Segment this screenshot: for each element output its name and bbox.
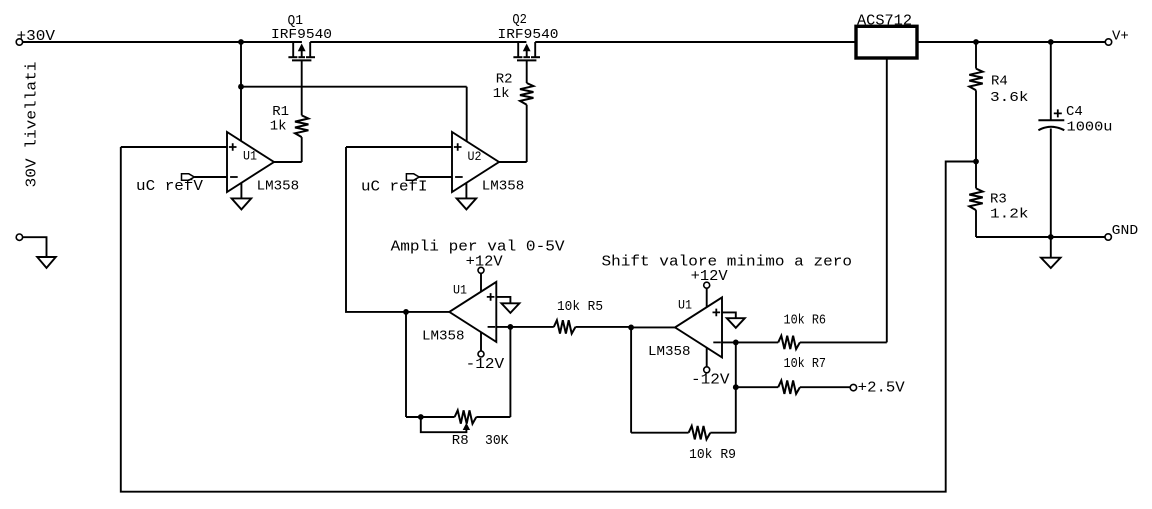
label 10k R7 [784, 356, 827, 372]
label Q2 [512, 12, 527, 28]
label -12V (Shift) [691, 373, 730, 389]
terminal GND [1105, 234, 1111, 240]
terminal +30V [16, 39, 22, 45]
svg-text:-12V: -12V [691, 373, 730, 389]
wire refI loop [346, 147, 449, 312]
svg-text:+30V: +30V [17, 29, 56, 45]
label R4 [991, 73, 1008, 89]
label 1k (R1) [270, 119, 287, 135]
resistor R5 10k [554, 320, 631, 333]
op-amp U1 LM358 (Ampli, mirrored) [449, 282, 496, 342]
label R2 [496, 72, 513, 88]
resistor R3 1.2k [969, 162, 982, 238]
svg-text:IRF9540: IRF9540 [271, 27, 332, 43]
svg-text:LM358: LM358 [422, 329, 465, 345]
label +30V [17, 29, 56, 45]
label U2 [468, 149, 482, 164]
wire rail Q1-Q2 segment [310, 41, 526, 43]
svg-text:+12V: +12V [691, 269, 728, 285]
wire Ampli - output row [496, 326, 554, 328]
label ACS712 [857, 12, 912, 29]
svg-text:1.2k: 1.2k [990, 206, 1029, 222]
wire U2 + input [346, 146, 452, 148]
svg-text:LM358: LM358 [482, 179, 525, 195]
label -12V (Ampli) [466, 357, 505, 373]
resistor R1 1k [295, 60, 308, 162]
node junction Shift input [628, 325, 634, 331]
terminal V+ [1105, 39, 1111, 45]
wire feedback V loop (left/bottom) [121, 147, 976, 492]
wire Shift + input to gnd [722, 312, 736, 318]
svg-text:U2: U2 [468, 149, 482, 164]
label 10k R9 [689, 447, 736, 463]
resistor R2 1k [520, 60, 533, 162]
wire +12V stub (Ampli) [480, 273, 482, 292]
node junction Ampli input [403, 309, 409, 315]
node flag uC refV [182, 174, 195, 180]
svg-text:R1: R1 [272, 104, 289, 120]
label U1 (Shift) [678, 298, 692, 313]
label +2.5V [858, 381, 905, 397]
label uC refV [136, 179, 203, 195]
op-amp U1 LM358 (Shift, mirrored) [675, 297, 722, 357]
svg-text:LM358: LM358 [648, 344, 691, 360]
wire ACS712 output column [886, 58, 888, 342]
terminal -12V (Ampli) [478, 351, 484, 357]
svg-text:30V livellati: 30V livellati [25, 61, 41, 187]
label U1 (first op-amp) [243, 149, 257, 164]
wire +30V rail (left segment) [23, 41, 302, 43]
wire +12V stub (Shift) [706, 288, 708, 307]
svg-text:R3: R3 [990, 192, 1007, 208]
terminal +2.5V [850, 384, 856, 390]
wire R5 to Shift input [631, 326, 675, 328]
svg-text:10k R5: 10k R5 [557, 299, 603, 315]
label IRF9540 (Q1) [271, 27, 332, 43]
wire gnd reference [23, 237, 47, 257]
node junction C4 bottom [1048, 234, 1054, 240]
svg-text:1k: 1k [493, 86, 510, 102]
resistor R7 10k [736, 381, 850, 394]
wire Shift - to R7 column [735, 342, 737, 432]
svg-text:LM358: LM358 [257, 178, 300, 194]
terminal +12V (Shift) [704, 282, 710, 288]
terminal +12V (Ampli) [478, 267, 484, 273]
wire +30V column down [240, 42, 242, 87]
wire U2 output [499, 161, 527, 163]
ground left flag [37, 257, 56, 268]
ground Ampli + input flag [501, 303, 519, 313]
wire U1 - input [194, 176, 227, 178]
label +12V (Shift) [691, 269, 728, 285]
svg-text:30K: 30K [485, 433, 509, 449]
resistor R9 10k [631, 327, 736, 439]
svg-text:10k R6: 10k R6 [784, 313, 827, 329]
ground right flag [1041, 237, 1061, 268]
label R3 [990, 192, 1007, 208]
svg-text:10k R9: 10k R9 [689, 447, 736, 463]
label 30K [485, 433, 509, 449]
label 1.2k [990, 206, 1029, 222]
component ACS712 box [856, 26, 917, 58]
label 1000u [1067, 120, 1113, 136]
label Ampli per val 0-5V [391, 239, 565, 256]
resistor R4 3.6k [969, 42, 982, 162]
wire -12V stub (Ampli) [480, 332, 482, 351]
node junction R4/R3 divider [973, 159, 979, 165]
op-amp U2 LM358 [452, 132, 499, 192]
label Shift valore minimo a zero [602, 254, 853, 271]
svg-text:U1: U1 [678, 298, 692, 313]
label 3.6k [990, 90, 1029, 106]
label 30V livellati (rotated) [25, 61, 41, 187]
node junction R8 wiper tap [418, 414, 424, 420]
svg-text:R8: R8 [452, 433, 469, 449]
wire U2 - input [419, 176, 452, 178]
node flag uC refI [406, 174, 419, 180]
label V+ [1112, 29, 1129, 45]
svg-text:U1: U1 [243, 149, 257, 164]
svg-text:-12V: -12V [466, 357, 505, 373]
label +12V (Ampli) [466, 255, 503, 271]
label C4 polarity + [1054, 109, 1062, 117]
label 10k R6 [784, 313, 827, 329]
label IRF9540 (Q2) [498, 27, 559, 43]
node junction opamp supply rail [238, 84, 244, 90]
resistor R6 10k [778, 336, 887, 349]
svg-text:10k R7: 10k R7 [784, 356, 827, 372]
wire rail Q2-ACS712 segment [535, 41, 856, 43]
node junction R4 top [973, 39, 979, 45]
wire Shift - output row [722, 341, 778, 343]
terminal -12V (Shift) [704, 367, 710, 373]
label R1 [272, 104, 289, 120]
transistor Q2 IRF9540 [513, 42, 540, 60]
node junction Ampli - node [508, 324, 514, 330]
label LM358 (U1) [257, 178, 300, 194]
terminal gnd reference left [16, 234, 22, 240]
label LM358 (Shift) [648, 344, 691, 360]
wire opamp supply rail [241, 86, 467, 88]
svg-text:V+: V+ [1112, 29, 1129, 45]
svg-text:1000u: 1000u [1067, 120, 1113, 136]
wire Ampli + input to gnd [496, 297, 510, 303]
node junction C4 top [1048, 39, 1054, 45]
svg-text:GND: GND [1112, 223, 1139, 239]
wire U1 output [274, 161, 302, 163]
svg-text:IRF9540: IRF9540 [498, 27, 559, 43]
svg-text:+2.5V: +2.5V [858, 381, 905, 397]
capacitor C4 1000u [1038, 42, 1064, 237]
svg-text:3.6k: 3.6k [990, 90, 1029, 106]
svg-text:C4: C4 [1066, 104, 1083, 120]
wire U2 V+ pin stub [466, 87, 468, 142]
wire GND row [976, 236, 1105, 238]
svg-text:ACS712: ACS712 [857, 12, 912, 29]
node R8 wiper arrow [464, 424, 470, 430]
label Q1 [288, 13, 304, 29]
op-amp U1 LM358 [227, 132, 274, 192]
svg-text:Shift valore minimo a zero: Shift valore minimo a zero [602, 254, 853, 271]
label R8 [452, 433, 469, 449]
svg-text:uC refI: uC refI [361, 180, 428, 196]
wire -12V stub (Shift) [706, 347, 708, 367]
wire rail ACS712 to V+ [917, 41, 1105, 43]
label 1k (R2) [493, 86, 510, 102]
label uC refI [361, 180, 428, 196]
wire R8 wiper [421, 417, 467, 432]
node junction R7 tap [733, 384, 739, 390]
svg-text:+12V: +12V [466, 255, 503, 271]
label LM358 (Ampli) [422, 329, 465, 345]
label 10k R5 [557, 299, 603, 315]
svg-text:1k: 1k [270, 119, 287, 135]
label C4 [1066, 104, 1083, 120]
ground U1 V- flag [232, 183, 252, 210]
svg-text:Ampli per val 0-5V: Ampli per val 0-5V [391, 239, 565, 256]
wire U1 V+ pin stub [240, 87, 242, 142]
svg-text:R4: R4 [991, 73, 1008, 89]
ground U2 V- flag [457, 183, 477, 210]
label U1 (Ampli) [453, 283, 467, 298]
label GND [1112, 223, 1139, 239]
svg-text:uC refV: uC refV [136, 179, 203, 195]
svg-text:U1: U1 [453, 283, 467, 298]
resistor R8 30K with wiper [406, 312, 510, 424]
ground Shift + input flag [727, 318, 745, 328]
label LM358 (U2) [482, 179, 525, 195]
wire U1 + input [121, 146, 227, 148]
transistor Q1 IRF9540 [288, 42, 315, 60]
svg-text:Q2: Q2 [512, 12, 527, 28]
node junction Shift - node [733, 340, 739, 346]
node junction rail/+30V column [238, 39, 244, 45]
